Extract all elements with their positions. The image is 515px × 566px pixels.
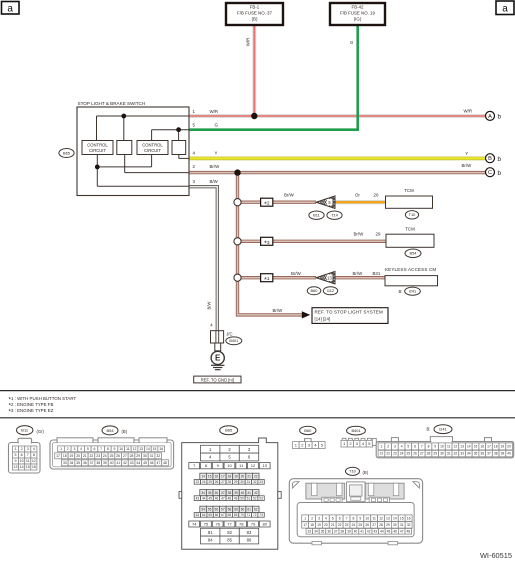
svg-text:26: 26	[365, 523, 369, 527]
svg-text:12: 12	[379, 516, 383, 520]
svg-text:14: 14	[393, 516, 397, 520]
svg-text:Or: Or	[355, 192, 360, 197]
svg-text:45: 45	[208, 496, 212, 500]
svg-text:3: 3	[73, 447, 75, 451]
svg-text:36: 36	[327, 529, 331, 533]
svg-text:9: 9	[15, 459, 17, 463]
svg-text:21: 21	[331, 523, 335, 527]
svg-text:40: 40	[507, 452, 511, 456]
svg-text:37: 37	[221, 491, 225, 495]
svg-text:T10: T10	[349, 469, 357, 474]
svg-text:C: C	[488, 170, 492, 176]
svg-text:Br/W: Br/W	[284, 192, 295, 197]
svg-text:B/W: B/W	[210, 179, 219, 184]
svg-text:25: 25	[359, 523, 363, 527]
svg-text:49: 49	[234, 496, 238, 500]
svg-text:40: 40	[354, 529, 358, 533]
svg-text:67: 67	[221, 513, 225, 517]
svg-text:B401: B401	[351, 428, 360, 433]
svg-text:19: 19	[234, 474, 238, 478]
svg-text:35: 35	[321, 529, 325, 533]
svg-text:5: 5	[15, 453, 17, 457]
svg-text:16: 16	[407, 516, 411, 520]
svg-text:38: 38	[228, 491, 232, 495]
svg-text:G: G	[215, 123, 219, 128]
svg-text:5: 5	[332, 516, 334, 520]
svg-text:12: 12	[32, 459, 36, 463]
svg-text:22: 22	[90, 454, 94, 458]
svg-text:a: a	[502, 4, 508, 15]
svg-text:77: 77	[227, 521, 232, 526]
svg-text:1: 1	[15, 447, 17, 451]
svg-text:27: 27	[420, 452, 424, 456]
svg-text:7: 7	[27, 453, 29, 457]
svg-text:57: 57	[221, 507, 225, 511]
svg-text:3: 3	[27, 447, 29, 451]
svg-text:1: 1	[304, 516, 306, 520]
svg-text:50: 50	[240, 496, 244, 500]
svg-text:61: 61	[247, 507, 251, 511]
svg-text:16: 16	[480, 445, 484, 449]
svg-text:6: 6	[21, 453, 23, 457]
svg-text:9: 9	[114, 447, 116, 451]
svg-text:35: 35	[76, 461, 80, 465]
svg-text:28: 28	[379, 523, 383, 527]
svg-text:33: 33	[308, 529, 312, 533]
svg-text:B54: B54	[410, 251, 418, 256]
svg-text:FB-1: FB-1	[250, 5, 260, 10]
svg-text:46: 46	[215, 496, 219, 500]
svg-text:28: 28	[427, 452, 431, 456]
svg-text:G: G	[349, 40, 354, 44]
svg-text:15: 15	[474, 445, 478, 449]
svg-text:Br/W: Br/W	[353, 271, 364, 276]
svg-text:33: 33	[63, 461, 67, 465]
svg-text:Br/W: Br/W	[291, 271, 302, 276]
svg-text:35: 35	[474, 452, 478, 456]
svg-text:11: 11	[26, 459, 30, 463]
svg-text:84: 84	[208, 538, 213, 543]
svg-text:(IG): (IG)	[354, 16, 362, 21]
svg-text:83: 83	[247, 530, 252, 535]
svg-text:27: 27	[123, 454, 127, 458]
svg-text:23: 23	[345, 523, 349, 527]
svg-text:2: 2	[311, 516, 313, 520]
svg-text:2: 2	[387, 445, 389, 449]
svg-text:B11: B11	[313, 213, 320, 218]
svg-text:31: 31	[400, 523, 404, 527]
svg-text:81: 81	[208, 530, 213, 535]
svg-text:45: 45	[143, 461, 147, 465]
svg-text:4: 4	[33, 447, 35, 451]
svg-text:9: 9	[359, 516, 361, 520]
svg-text:T14: T14	[331, 213, 339, 218]
svg-text:13: 13	[386, 516, 390, 520]
svg-text:42: 42	[123, 461, 127, 465]
svg-text:7: 7	[100, 447, 102, 451]
svg-text:82: 82	[227, 530, 232, 535]
svg-text:17: 17	[221, 474, 225, 478]
svg-text:18: 18	[494, 445, 498, 449]
svg-text:15: 15	[153, 447, 157, 451]
svg-text:STOP LIGHT & BRAKE SWITCH: STOP LIGHT & BRAKE SWITCH	[78, 101, 146, 106]
svg-text:33: 33	[460, 452, 464, 456]
svg-text:Br/W: Br/W	[210, 164, 221, 169]
svg-text:B54: B54	[106, 428, 114, 433]
svg-text:5: 5	[407, 445, 409, 449]
svg-text:B:: B:	[427, 427, 431, 432]
svg-text:76: 76	[215, 521, 220, 526]
svg-text:B/W: B/W	[207, 302, 212, 310]
svg-text:18: 18	[310, 523, 314, 527]
svg-text:24: 24	[400, 452, 404, 456]
svg-text:11: 11	[447, 445, 451, 449]
svg-text:29: 29	[136, 454, 140, 458]
svg-text:i241: i241	[439, 427, 446, 432]
svg-text:23: 23	[196, 480, 200, 484]
svg-text:10: 10	[119, 447, 123, 451]
svg-text:36: 36	[480, 452, 484, 456]
svg-text:B31: B31	[373, 271, 381, 276]
svg-text:38: 38	[96, 461, 100, 465]
svg-text:23: 23	[393, 452, 397, 456]
svg-text:W/R: W/R	[245, 38, 250, 47]
svg-text:15: 15	[400, 516, 404, 520]
svg-text:40: 40	[110, 461, 114, 465]
svg-text:34: 34	[467, 452, 471, 456]
svg-text:42: 42	[254, 491, 258, 495]
svg-text:58: 58	[228, 507, 232, 511]
svg-text:30: 30	[240, 480, 244, 484]
svg-text:31: 31	[150, 454, 154, 458]
svg-text:(B): (B)	[252, 16, 258, 21]
svg-text:b: b	[498, 170, 502, 177]
svg-text:48: 48	[163, 461, 167, 465]
svg-text:6: 6	[414, 445, 416, 449]
svg-text:48: 48	[227, 496, 231, 500]
svg-text:27: 27	[221, 480, 225, 484]
svg-text:46: 46	[150, 461, 154, 465]
svg-text:11: 11	[126, 447, 130, 451]
svg-text:W/R: W/R	[210, 109, 219, 114]
svg-text:34: 34	[201, 491, 205, 495]
svg-text:26: 26	[116, 454, 120, 458]
svg-text:54: 54	[201, 507, 205, 511]
svg-text:60: 60	[241, 507, 245, 511]
svg-text:36: 36	[83, 461, 87, 465]
svg-text:47: 47	[156, 461, 160, 465]
svg-text:37: 37	[334, 529, 338, 533]
svg-text:45: 45	[387, 529, 391, 533]
svg-text:a: a	[7, 4, 13, 15]
svg-text:10: 10	[365, 516, 369, 520]
svg-text:8: 8	[107, 447, 109, 451]
svg-text:43: 43	[130, 461, 134, 465]
svg-text:8: 8	[33, 453, 35, 457]
svg-text:30: 30	[440, 452, 444, 456]
svg-text:REF. TO STOP LIGHT SYSTEM: REF. TO STOP LIGHT SYSTEM	[315, 310, 383, 315]
svg-text:4: 4	[325, 516, 327, 520]
svg-text:41: 41	[360, 529, 364, 533]
svg-text:32: 32	[156, 454, 160, 458]
svg-text:80: 80	[263, 521, 268, 526]
svg-text:20: 20	[76, 454, 80, 458]
svg-text:13: 13	[139, 447, 143, 451]
svg-text:43: 43	[196, 496, 200, 500]
svg-text:27: 27	[372, 523, 376, 527]
svg-text:17: 17	[56, 454, 60, 458]
svg-text:1: 1	[381, 445, 383, 449]
svg-text:24: 24	[103, 454, 107, 458]
svg-text:24: 24	[202, 480, 206, 484]
svg-text:33: 33	[259, 480, 263, 484]
svg-text:39: 39	[103, 461, 107, 465]
svg-text:W/R: W/R	[464, 109, 473, 114]
svg-text:59: 59	[234, 507, 238, 511]
svg-text:68: 68	[227, 513, 231, 517]
svg-text:56: 56	[214, 507, 218, 511]
svg-text:B401: B401	[229, 339, 238, 343]
svg-text:Br/W: Br/W	[462, 163, 473, 168]
svg-text:39: 39	[347, 529, 351, 533]
svg-text:78: 78	[239, 521, 244, 526]
svg-text:48: 48	[407, 529, 411, 533]
svg-text:9: 9	[434, 445, 436, 449]
svg-text:25: 25	[407, 452, 411, 456]
svg-text:30: 30	[393, 523, 397, 527]
svg-text:41: 41	[116, 461, 120, 465]
svg-text:16: 16	[32, 465, 36, 469]
svg-text:39: 39	[234, 491, 238, 495]
svg-text:47: 47	[400, 529, 404, 533]
svg-text:7: 7	[421, 445, 423, 449]
svg-text:1: 1	[60, 447, 62, 451]
svg-text:52: 52	[253, 496, 257, 500]
svg-text:8: 8	[353, 516, 355, 520]
svg-text:i241: i241	[409, 289, 416, 294]
svg-text:85: 85	[227, 538, 232, 543]
svg-text:64: 64	[202, 513, 206, 517]
svg-text:44: 44	[136, 461, 140, 465]
svg-text:15: 15	[26, 465, 30, 469]
svg-text:26: 26	[215, 480, 219, 484]
svg-text:20: 20	[507, 445, 511, 449]
svg-text:14: 14	[467, 445, 471, 449]
svg-text:22: 22	[338, 523, 342, 527]
svg-text:79: 79	[251, 521, 256, 526]
svg-text:14: 14	[20, 465, 24, 469]
svg-text:21: 21	[380, 452, 384, 456]
svg-text:Y: Y	[465, 151, 468, 156]
svg-text:44: 44	[380, 529, 384, 533]
svg-text:11: 11	[372, 516, 376, 520]
svg-text:2: 2	[21, 447, 23, 451]
svg-text:17: 17	[303, 523, 307, 527]
svg-text:6: 6	[93, 447, 95, 451]
svg-text:A: A	[488, 114, 492, 120]
svg-text:B65: B65	[225, 428, 233, 433]
svg-text:20: 20	[324, 523, 328, 527]
svg-text:24: 24	[352, 523, 356, 527]
svg-text:3: 3	[318, 516, 320, 520]
svg-text:KEYLESS ACCESS CM: KEYLESS ACCESS CM	[385, 267, 436, 272]
svg-text:13: 13	[14, 465, 18, 469]
svg-text:8: 8	[428, 445, 430, 449]
svg-text:18: 18	[63, 454, 67, 458]
svg-text:38: 38	[494, 452, 498, 456]
svg-text:4: 4	[401, 445, 403, 449]
svg-text:51: 51	[247, 496, 251, 500]
svg-text:20: 20	[374, 192, 379, 197]
svg-text:Br/W: Br/W	[273, 308, 284, 313]
svg-text:10: 10	[440, 445, 444, 449]
svg-text:E: E	[215, 354, 221, 363]
svg-text:31: 31	[247, 480, 251, 484]
svg-text:28: 28	[130, 454, 134, 458]
svg-text:32: 32	[454, 452, 458, 456]
svg-text:4: 4	[80, 447, 82, 451]
svg-text:15: 15	[208, 474, 212, 478]
svg-text:B60: B60	[304, 428, 312, 433]
svg-text:53: 53	[259, 496, 263, 500]
svg-text:72: 72	[253, 513, 257, 517]
svg-text:B:: B:	[399, 289, 403, 294]
svg-text:66: 66	[215, 513, 219, 517]
svg-text:28: 28	[227, 480, 231, 484]
svg-text:CIRCUIT: CIRCUIT	[144, 148, 161, 153]
svg-text:37: 37	[487, 452, 491, 456]
svg-text:14: 14	[201, 474, 205, 478]
svg-text:44: 44	[202, 496, 206, 500]
svg-text:10: 10	[227, 463, 232, 468]
svg-text:i112: i112	[327, 288, 334, 293]
svg-text:5: 5	[87, 447, 89, 451]
svg-text:40: 40	[241, 491, 245, 495]
svg-text:36: 36	[214, 491, 218, 495]
svg-text:[14] [24]: [14] [24]	[315, 317, 331, 322]
svg-text:29: 29	[386, 523, 390, 527]
svg-text:F/B FUSE NO. 37: F/B FUSE NO. 37	[237, 11, 272, 16]
svg-text:19: 19	[501, 445, 505, 449]
svg-text:2: 2	[67, 447, 69, 451]
svg-text:14: 14	[146, 447, 150, 451]
svg-text:74: 74	[192, 521, 197, 526]
svg-text:63: 63	[196, 513, 200, 517]
svg-text:35: 35	[208, 491, 212, 495]
svg-text:20: 20	[241, 474, 245, 478]
svg-text:17: 17	[487, 445, 491, 449]
svg-text:25: 25	[208, 480, 212, 484]
svg-text:19: 19	[317, 523, 321, 527]
svg-text:18: 18	[228, 474, 232, 478]
svg-text:41: 41	[247, 491, 251, 495]
svg-text:21: 21	[247, 474, 251, 478]
svg-text:19: 19	[70, 454, 74, 458]
svg-text:42: 42	[367, 529, 371, 533]
svg-text:16: 16	[159, 447, 163, 451]
svg-text:FB-42: FB-42	[352, 5, 365, 10]
svg-text:71: 71	[247, 513, 251, 517]
svg-text:13: 13	[263, 463, 268, 468]
svg-text:62: 62	[254, 507, 258, 511]
svg-text:34: 34	[70, 461, 74, 465]
svg-text:J/C: J/C	[226, 332, 232, 337]
svg-text:37: 37	[90, 461, 94, 465]
svg-text:70: 70	[240, 513, 244, 517]
svg-text:TCM: TCM	[404, 188, 414, 193]
svg-text:b: b	[498, 114, 502, 121]
svg-text:29: 29	[234, 480, 238, 484]
svg-text:69: 69	[234, 513, 238, 517]
svg-text:F/B FUSE NO. 19: F/B FUSE NO. 19	[340, 11, 375, 16]
svg-text:10: 10	[20, 459, 24, 463]
svg-text:6: 6	[339, 516, 341, 520]
svg-text:b: b	[498, 156, 502, 163]
svg-text:31: 31	[447, 452, 451, 456]
svg-text:38: 38	[341, 529, 345, 533]
svg-text:(B): (B)	[363, 470, 369, 475]
svg-text:B11: B11	[21, 428, 29, 433]
svg-text:12: 12	[133, 447, 137, 451]
svg-text:B60: B60	[311, 288, 319, 293]
svg-text:46: 46	[393, 529, 397, 533]
svg-text:B65: B65	[63, 150, 70, 155]
svg-text:13: 13	[327, 275, 332, 280]
svg-text:3: 3	[394, 445, 396, 449]
svg-text:32: 32	[407, 523, 411, 527]
svg-text:TCM: TCM	[405, 227, 415, 232]
svg-text:12: 12	[454, 445, 458, 449]
svg-text:25: 25	[110, 454, 114, 458]
svg-text:Br/W: Br/W	[354, 231, 365, 236]
svg-text:12: 12	[251, 463, 256, 468]
svg-text:75: 75	[204, 521, 209, 526]
svg-text:22: 22	[254, 474, 258, 478]
svg-text:WI-60515: WI-60515	[480, 551, 512, 560]
svg-text:39: 39	[501, 452, 505, 456]
svg-text:55: 55	[208, 507, 212, 511]
svg-text:B: B	[488, 156, 492, 162]
svg-text:REF. TO GND [ni]: REF. TO GND [ni]	[201, 377, 234, 382]
svg-text:13: 13	[460, 445, 464, 449]
svg-text:86: 86	[247, 538, 252, 543]
svg-text:7: 7	[346, 516, 348, 520]
svg-text:23: 23	[96, 454, 100, 458]
svg-text:26: 26	[413, 452, 417, 456]
svg-text:CIRCUIT: CIRCUIT	[89, 148, 106, 153]
svg-text:32: 32	[253, 480, 257, 484]
svg-text:43: 43	[374, 529, 378, 533]
svg-text:(Gr): (Gr)	[37, 429, 45, 434]
svg-text:73: 73	[259, 513, 263, 517]
svg-text:16: 16	[214, 474, 218, 478]
svg-text:(B): (B)	[122, 429, 128, 434]
svg-text:30: 30	[143, 454, 147, 458]
svg-text:Y: Y	[215, 150, 218, 155]
svg-text:47: 47	[221, 496, 225, 500]
svg-text:65: 65	[208, 513, 212, 517]
svg-text:29: 29	[433, 452, 437, 456]
svg-text:21: 21	[83, 454, 87, 458]
svg-text:T10: T10	[409, 212, 417, 217]
svg-text:29: 29	[376, 231, 381, 236]
svg-text:22: 22	[386, 452, 390, 456]
svg-text:34: 34	[314, 529, 318, 533]
